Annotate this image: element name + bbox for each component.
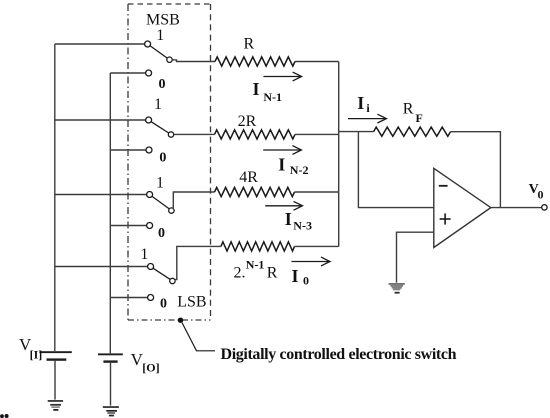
svg-text:I: I — [285, 209, 292, 229]
svg-text:4R: 4R — [239, 169, 258, 186]
resistor 2^N-1 R — [221, 242, 295, 251]
wire S4 arm up to resistor 2^N-1 R — [175, 246, 221, 279]
switch S1 (MSB) contact circles and arm — [145, 41, 173, 62]
wire row8 to "0" contact 4 — [110, 297, 147, 299]
svg-text:0: 0 — [160, 297, 167, 312]
ground symbol (battery V[O]) — [103, 406, 119, 416]
switch S4 contact circles and arm — [148, 264, 175, 284]
svg-text:N-1: N-1 — [263, 90, 282, 104]
current arrow I 0 — [292, 257, 331, 266]
resistor RF feedback — [374, 127, 451, 136]
wire S2 arm to resistor 2R — [174, 133, 215, 135]
current arrow I i — [348, 114, 386, 123]
svg-text:N-3: N-3 — [293, 219, 312, 233]
wire: vertical bus B from V[O] — [109, 73, 111, 353]
contact circle 0 (row6) — [147, 223, 153, 229]
svg-text:0: 0 — [538, 188, 544, 202]
contact circle 0 (row8) — [148, 295, 154, 301]
wire row3 to switch S2 "1" contact — [55, 119, 146, 121]
svg-text:N-2: N-2 — [290, 163, 309, 177]
wire row1 to switch S1 "1" contact — [55, 43, 145, 45]
op-amp minus sign — [439, 185, 448, 187]
svg-text:MSB: MSB — [146, 12, 180, 29]
wire: bus to RF (current Ii) — [339, 131, 374, 133]
svg-text:I: I — [292, 266, 299, 286]
svg-text:1: 1 — [154, 96, 162, 113]
wire row5 to switch S3 "1" contact — [55, 194, 147, 196]
svg-text:R: R — [267, 264, 278, 281]
ground symbol (op-amp + input) — [389, 283, 405, 294]
current arrow I N-3 — [265, 201, 302, 210]
wire battery V[O] to ground — [110, 363, 112, 406]
svg-text:[O]: [O] — [142, 361, 159, 375]
page corner dots — [0, 414, 9, 418]
svg-text:2R: 2R — [238, 113, 257, 130]
callout bullet on box — [178, 318, 183, 323]
resistor 2R — [215, 130, 296, 139]
current arrow I N-2 — [263, 146, 301, 155]
resistor R — [215, 57, 295, 66]
contact circle 0 (row2) — [146, 70, 152, 76]
svg-text:Digitally controlled electroni: Digitally controlled electronic switch — [221, 346, 457, 363]
svg-text:i: i — [366, 101, 370, 115]
ground symbol (battery V[I]) — [48, 400, 63, 411]
dashed enclosure box (digitally controlled switch) — [128, 4, 211, 320]
wire row6 to "0" contact 3 — [110, 225, 146, 227]
svg-text:1: 1 — [156, 27, 164, 44]
wire row2 to "0" contact 1 — [110, 72, 145, 74]
op-amp U1 triangle — [434, 168, 491, 247]
svg-text:R: R — [244, 35, 255, 52]
wire S3 arm up to resistor 4R — [173, 192, 214, 209]
svg-text:R: R — [403, 101, 414, 118]
wire 4R output to bus — [295, 191, 339, 193]
switch S3 contact circles and arm — [147, 192, 174, 214]
svg-text:I: I — [357, 93, 364, 113]
switch S2 contact circles and arm — [146, 117, 174, 137]
wire row4 to "0" contact 2 — [110, 149, 146, 151]
svg-text:1: 1 — [140, 246, 148, 263]
wire op-amp output — [491, 207, 542, 209]
wire: vertical bus A from V[I] — [54, 44, 56, 351]
svg-text:[I]: [I] — [30, 348, 43, 362]
wire S1 arm to resistor R — [172, 60, 215, 62]
wire: node down to inverting input — [358, 132, 433, 208]
resistor 4R — [215, 187, 295, 196]
wire battery V[I] to ground — [54, 361, 56, 400]
svg-text:N-1: N-1 — [246, 258, 265, 272]
svg-text:LSB: LSB — [177, 294, 206, 311]
svg-text:0: 0 — [159, 151, 166, 166]
svg-text:F: F — [416, 111, 423, 125]
svg-text:2.: 2. — [234, 265, 246, 282]
contact circle 0 (row4) — [146, 147, 152, 153]
wire R output to bus — [295, 61, 339, 63]
svg-text:I: I — [253, 79, 260, 99]
battery V[O] plates — [98, 353, 123, 362]
callout pointer line — [182, 323, 215, 351]
wire: summing vertical bus — [338, 62, 340, 247]
svg-text:I: I — [278, 155, 285, 175]
svg-text:0: 0 — [159, 77, 166, 92]
battery V[I] plates — [39, 351, 71, 361]
wire 2^N-1R output to bus — [295, 245, 339, 247]
wire non-inverting input to ground — [397, 232, 434, 282]
wire 2R output to bus — [295, 133, 339, 135]
current arrow I N-1 — [263, 72, 301, 81]
op-amp plus sign — [440, 213, 451, 224]
wire row7 to switch S4 "1" contact — [55, 266, 148, 268]
wire RF output down to op-amp output node — [451, 132, 501, 208]
svg-text:0: 0 — [158, 226, 165, 241]
svg-text:1: 1 — [156, 175, 164, 192]
output terminal circle V0 — [542, 205, 547, 210]
svg-text:0: 0 — [303, 274, 309, 288]
